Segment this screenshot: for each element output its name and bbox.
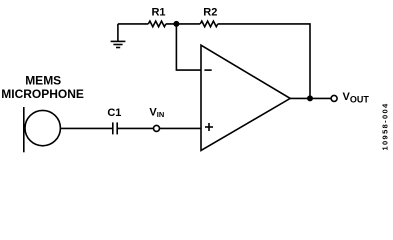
resistor R1 xyxy=(148,21,166,27)
junction node between R1 and R2 xyxy=(173,21,179,27)
ground xyxy=(111,24,126,48)
resistor R2 xyxy=(200,21,218,27)
wire C1 to non-inverting input xyxy=(117,127,201,129)
MEMS microphone symbol xyxy=(24,107,61,152)
wire R1 to R2 xyxy=(166,23,200,25)
capacitor C1 xyxy=(113,122,117,134)
op-amp non-inverting pin mark xyxy=(205,123,213,131)
svg-text:R2: R2 xyxy=(203,7,217,19)
wire op-amp output to VOUT xyxy=(290,97,331,99)
wire ground to R1 xyxy=(118,23,148,25)
svg-text:C1: C1 xyxy=(107,107,121,119)
svg-text:MICROPHONE: MICROPHONE xyxy=(1,87,84,101)
node VIN terminal xyxy=(154,125,160,131)
output junction node xyxy=(307,95,313,101)
svg-text:R1: R1 xyxy=(151,7,165,19)
svg-text:VOUT: VOUT xyxy=(343,91,370,105)
op-amp inverting pin mark xyxy=(204,69,211,71)
wire R2 to output junction (feedback) xyxy=(218,24,310,99)
svg-text:MEMS: MEMS xyxy=(25,73,61,87)
wire microphone to C1 xyxy=(60,127,112,129)
node VOUT terminal xyxy=(331,95,337,101)
svg-text:10958-004: 10958-004 xyxy=(380,102,389,150)
wire feedback node down to inverting input xyxy=(176,24,201,70)
svg-text:VIN: VIN xyxy=(149,106,164,119)
op-amp U1 xyxy=(201,45,290,150)
